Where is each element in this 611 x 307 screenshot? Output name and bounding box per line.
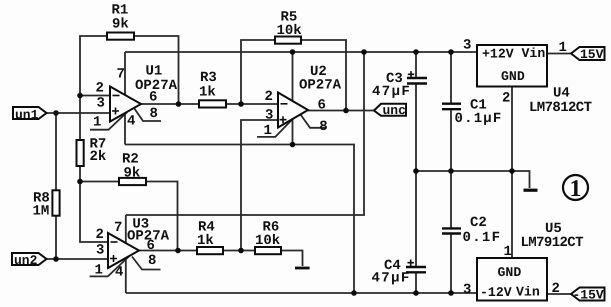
- U3 pin8 stub: [132, 257, 161, 270]
- svg-text:-15V: -15V: [573, 288, 604, 303]
- op-amp U3: [108, 217, 170, 268]
- resistor R8: [33, 190, 60, 219]
- resistor R5: [275, 9, 302, 43]
- svg-text:-12V: -12V: [480, 285, 512, 300]
- svg-text:3: 3: [463, 282, 471, 298]
- wire U3 output to R4 R6: [139, 250, 281, 252]
- junction C1/C2 on GND rail: [448, 168, 454, 174]
- svg-text:3: 3: [463, 38, 471, 54]
- svg-text:2: 2: [502, 91, 510, 107]
- wire U3 pin2 branch: [80, 182, 108, 243]
- wire C1 C2 column: [450, 52, 452, 293]
- wire un1 input line: [47, 112, 111, 114]
- junction U2 pin4 on V- rail: [290, 142, 296, 148]
- svg-text:Vin: Vin: [522, 46, 546, 61]
- svg-text:1: 1: [570, 176, 582, 202]
- wire U1 pin2 line: [80, 95, 110, 97]
- junction un1/R8: [53, 110, 59, 116]
- U3 pin1 stub: [90, 256, 130, 276]
- svg-text:0.1µF: 0.1µF: [455, 111, 503, 127]
- junction C4 on bottom rail: [413, 290, 419, 296]
- svg-text:unc: unc: [383, 103, 407, 118]
- U3 pin 7 label: [114, 220, 122, 236]
- U2 pin 8 label: [319, 119, 327, 135]
- U5 pin 1 label: [504, 244, 512, 260]
- resistor R7: [77, 137, 107, 166]
- junction R3/R5/U2 pin2: [238, 101, 244, 107]
- svg-text:+12V: +12V: [482, 47, 514, 62]
- regulator U5 LM7912CT: [477, 221, 583, 301]
- U3 pin 4 label: [115, 265, 123, 281]
- svg-text:LM7812CT: LM7812CT: [529, 100, 592, 116]
- svg-text:LM7912CT: LM7912CT: [521, 235, 584, 251]
- U4 pin 3 label: [463, 38, 471, 54]
- U3 pin 8 label: [148, 253, 156, 269]
- resistor R3: [199, 70, 226, 108]
- U1 pin 2 label: [96, 81, 104, 97]
- svg-text:6: 6: [318, 98, 326, 114]
- junction R7/R2/U3 pin2: [77, 179, 83, 185]
- svg-text:47µF: 47µF: [372, 84, 411, 100]
- svg-text:6: 6: [147, 238, 155, 254]
- svg-text:Vin: Vin: [516, 285, 540, 300]
- junction R2/U3 output: [175, 248, 181, 254]
- junction C3 on +12V rail: [413, 49, 419, 55]
- svg-text:2k: 2k: [90, 149, 107, 165]
- capacitor C4: [372, 258, 427, 287]
- U2 pin 1 label: [264, 123, 272, 139]
- U2 pin8 stub: [301, 115, 327, 128]
- wire R8 column (un1 node to un2 node): [55, 113, 57, 259]
- U1 pin1 stub: [90, 112, 127, 130]
- U4 pin 1 label: [559, 40, 567, 56]
- wire U3 pin7 rail to +12V: [126, 52, 364, 215]
- svg-text:47µF: 47µF: [372, 271, 411, 287]
- svg-text:1k: 1k: [197, 233, 214, 249]
- U2 pin 2 label: [265, 89, 273, 105]
- wire U1 pin7/pin4 stub: [124, 52, 126, 145]
- svg-text:8: 8: [148, 253, 156, 269]
- U5 pin 3 label: [463, 282, 471, 298]
- svg-text:OP27A: OP27A: [299, 77, 342, 93]
- U5 pin 2 label: [552, 281, 560, 297]
- svg-text:1: 1: [559, 40, 567, 56]
- U3 pin 6 label: [147, 238, 155, 254]
- U3 pin 1 label: [95, 263, 103, 279]
- junction R1/U1 output: [176, 101, 182, 107]
- svg-text:1: 1: [264, 123, 272, 139]
- svg-text:4: 4: [115, 265, 123, 281]
- junction C2 on bottom rail: [448, 290, 454, 296]
- U3 pin 3 label: [96, 242, 104, 258]
- junction C3/C4 on GND rail: [413, 168, 419, 174]
- wire R1 feedback loop: [80, 36, 179, 104]
- svg-text:8: 8: [319, 119, 327, 135]
- junction R4/R6/U2 pin3: [238, 248, 244, 254]
- svg-text:2: 2: [265, 89, 273, 105]
- resistor R1: [107, 3, 134, 40]
- svg-text:2: 2: [552, 281, 560, 297]
- svg-text:0.1F: 0.1F: [463, 230, 502, 246]
- wire +12V rail: [125, 51, 477, 53]
- resistor R2: [119, 152, 146, 186]
- svg-text:un1: un1: [15, 107, 39, 122]
- svg-text:9k: 9k: [124, 166, 141, 182]
- op-amp U1: [110, 64, 178, 122]
- junction regulator GND column: [509, 168, 515, 174]
- capacitor C2: [442, 215, 501, 246]
- wire U1 output to U2 pin2: [141, 103, 278, 105]
- U1 pin 4 label: [127, 114, 135, 130]
- node un2 tag: [12, 253, 47, 268]
- wire U2 output to unc: [308, 110, 374, 112]
- capacitor C1: [442, 97, 503, 127]
- svg-text:1M: 1M: [33, 204, 50, 220]
- wire R5 feedback loop: [241, 40, 346, 111]
- U1 pin 1 label: [93, 115, 101, 131]
- junction C1 on +12V rail: [448, 49, 454, 55]
- svg-text:8: 8: [150, 106, 158, 122]
- svg-text:15V: 15V: [580, 47, 604, 62]
- U2 pin 3 label: [265, 107, 273, 123]
- node 15V tag: [571, 47, 605, 62]
- ground symbol near regulators: [512, 171, 538, 190]
- junction U2 pin7 on +12V rail: [290, 49, 296, 55]
- svg-text:7: 7: [114, 220, 122, 236]
- junction U3 pin7 riser on +12V rail: [361, 49, 367, 55]
- svg-text:GND: GND: [501, 69, 525, 84]
- wire un2 input line: [47, 258, 109, 260]
- U1 pin 6 label: [149, 90, 157, 106]
- svg-text:10k: 10k: [255, 233, 280, 249]
- wire V- mid rail: [125, 145, 354, 294]
- svg-text:2: 2: [96, 81, 104, 97]
- junction R5/U2 output: [343, 108, 349, 114]
- op-amp U2: [278, 64, 342, 128]
- svg-text:1: 1: [95, 263, 103, 279]
- U4 pin 2 label: [502, 91, 510, 107]
- svg-text:1: 1: [504, 244, 512, 260]
- U1 pin 3 label: [97, 96, 105, 112]
- svg-text:C2: C2: [470, 215, 487, 231]
- node -15V tag: [571, 288, 605, 303]
- wire U2 pin3 to R4/R6 node: [241, 120, 278, 251]
- U1 pin 7 label: [117, 67, 125, 83]
- svg-text:1: 1: [93, 115, 101, 131]
- svg-text:1k: 1k: [199, 84, 216, 100]
- junction un2/R8: [53, 256, 59, 262]
- junction V- drop on bottom rail: [351, 290, 357, 296]
- node un1 tag: [13, 107, 47, 122]
- svg-text:2: 2: [96, 227, 104, 243]
- svg-text:7: 7: [117, 67, 125, 83]
- wire U4 pin1 to 15V: [547, 53, 571, 55]
- wire regulator ground column: [511, 87, 513, 259]
- U3 pin 2 label: [96, 227, 104, 243]
- wire R2 line: [80, 182, 178, 251]
- node unc tag: [374, 103, 406, 118]
- circled 1 marker: [563, 175, 588, 202]
- wire U2 pin7/pin4 stub: [292, 52, 294, 145]
- svg-text:3: 3: [97, 96, 105, 112]
- svg-text:GND: GND: [498, 265, 522, 280]
- wire R7 column: [79, 96, 81, 182]
- svg-text:9k: 9k: [112, 17, 129, 33]
- ground stub after R6: [281, 251, 310, 269]
- wire -12V bottom rail: [126, 292, 477, 294]
- resistor R4: [197, 219, 223, 254]
- svg-text:4: 4: [127, 114, 135, 130]
- svg-text:un2: un2: [14, 253, 38, 268]
- U2 pin 6 label: [318, 98, 326, 114]
- svg-text:10k: 10k: [277, 23, 302, 39]
- svg-text:3: 3: [265, 107, 273, 123]
- regulator U4 LM7812CT: [477, 45, 592, 116]
- wire U3 pin7/pin4 stub: [125, 215, 127, 293]
- svg-text:3: 3: [96, 242, 104, 258]
- wire U5 pin2 to -15V: [547, 293, 571, 295]
- junction U1 pin2/R1/R7: [77, 93, 83, 99]
- wire GND rail: [416, 170, 512, 172]
- capacitor C3: [372, 71, 427, 100]
- wire C3 C4 column: [415, 52, 417, 293]
- U1 pin 8 label: [150, 106, 158, 122]
- svg-text:6: 6: [149, 90, 157, 106]
- resistor R6: [255, 219, 281, 254]
- U1 pin8 stub: [134, 108, 161, 121]
- U2 pin1 stub: [257, 116, 296, 137]
